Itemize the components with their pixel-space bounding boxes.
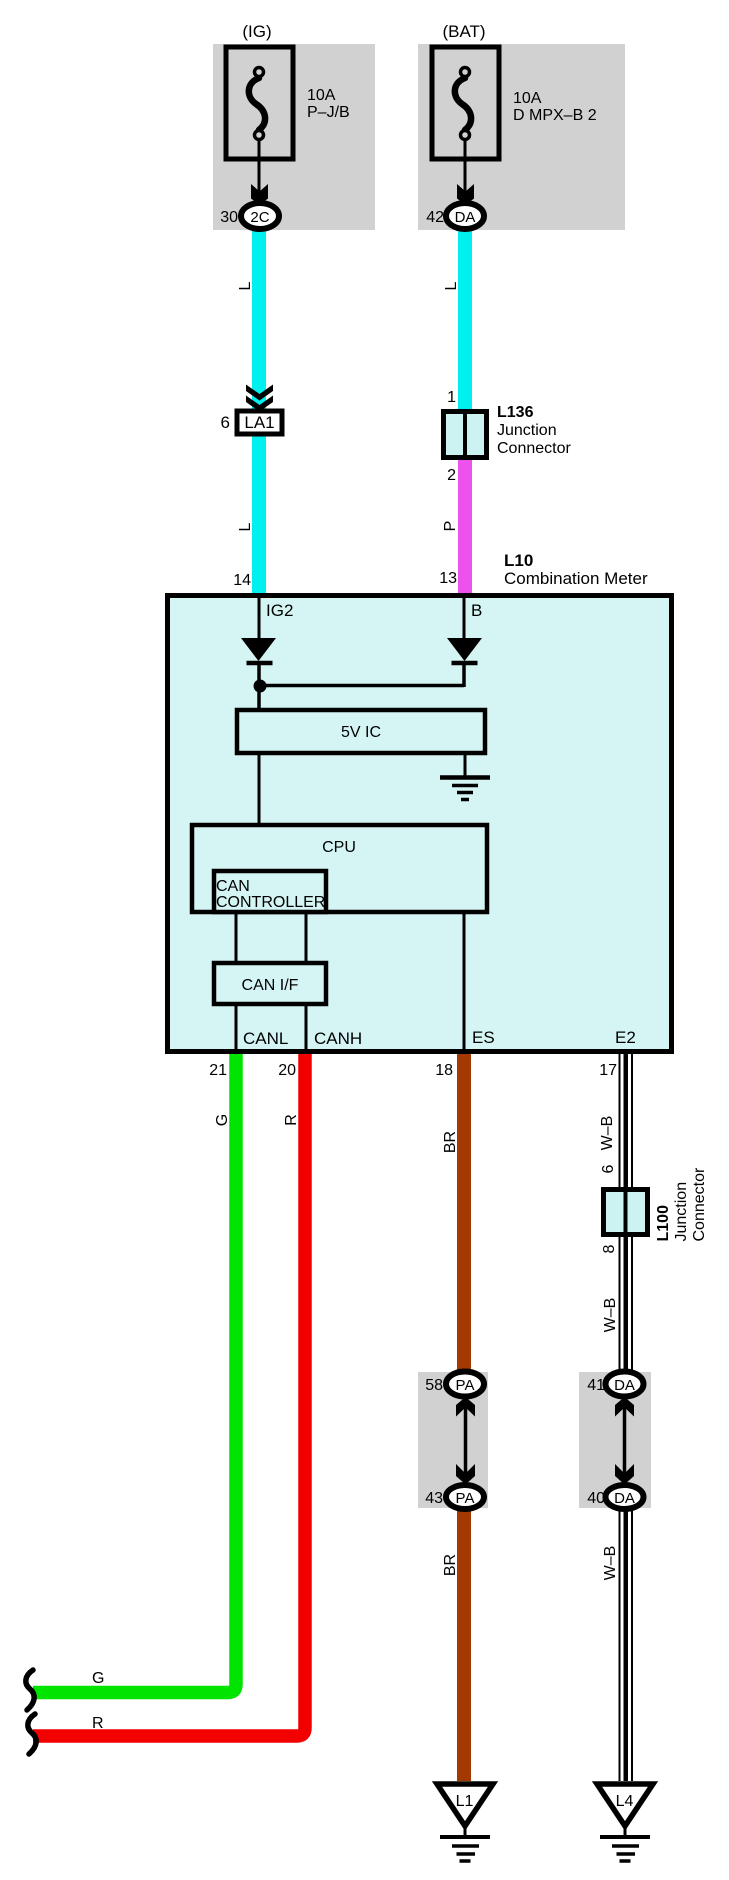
- svg-text:43: 43: [425, 1490, 443, 1507]
- connector pair arrows PA: [456, 1397, 475, 1485]
- svg-text:L: L: [237, 281, 254, 290]
- svg-text:58: 58: [425, 1377, 443, 1394]
- diode D2: [447, 638, 482, 663]
- svg-text:Junction: Junction: [673, 1182, 690, 1242]
- svg-text:R: R: [283, 1114, 300, 1126]
- combination meter box L10: [168, 596, 672, 1052]
- CAN I/F box: [214, 963, 326, 1004]
- svg-text:21: 21: [209, 1062, 227, 1079]
- CAN CONTROLLER box: [214, 871, 326, 912]
- wire CANL inside: [235, 1004, 238, 1051]
- diode D1: [241, 638, 276, 663]
- wire P (magenta) from L136 to pin 13: [458, 420, 472, 593]
- fuse block background (IG): [213, 44, 375, 230]
- svg-text:CONTROLLER: CONTROLLER: [216, 894, 325, 911]
- svg-text:2: 2: [447, 467, 456, 484]
- svg-text:18: 18: [435, 1062, 453, 1079]
- wire L (cyan) from 2C to pin 14: [252, 228, 266, 593]
- svg-text:L100: L100: [655, 1205, 672, 1242]
- svg-text:10A: 10A: [307, 87, 336, 104]
- ground L1: [437, 1784, 493, 1861]
- 5V IC box: [237, 710, 485, 753]
- svg-text:L: L: [443, 281, 460, 290]
- svg-text:IG2: IG2: [266, 601, 293, 620]
- connector block background DA: [579, 1372, 651, 1508]
- svg-text:40: 40: [587, 1490, 605, 1507]
- break symbol R: [28, 1714, 36, 1754]
- svg-text:13: 13: [439, 570, 457, 587]
- wire W-B middle segment: [619, 1237, 634, 1373]
- svg-text:(IG): (IG): [242, 22, 271, 41]
- svg-text:CAN: CAN: [216, 878, 250, 895]
- svg-text:5V IC: 5V IC: [341, 724, 381, 741]
- svg-text:BR: BR: [442, 1554, 459, 1576]
- svg-text:L136: L136: [497, 404, 534, 421]
- svg-text:30: 30: [220, 209, 238, 226]
- svg-text:L1: L1: [456, 1793, 474, 1810]
- connector PA pin 58: [425, 1372, 484, 1397]
- wire BR (brown) upper: [457, 1054, 471, 1373]
- svg-text:ES: ES: [472, 1028, 495, 1047]
- connector PA pin 43: [425, 1485, 484, 1509]
- arrow into connector DA: [457, 184, 474, 205]
- svg-text:Connector: Connector: [691, 1167, 708, 1241]
- wire fuse BAT to connector DA: [464, 139, 467, 196]
- label L136 Junction Connector: [497, 404, 571, 457]
- svg-text:L4: L4: [616, 1793, 634, 1810]
- arrow into connector 2C: [251, 184, 268, 205]
- wire G (green) vertical: [33, 1054, 236, 1693]
- svg-text:PA: PA: [456, 1490, 475, 1507]
- svg-text:10A: 10A: [513, 90, 542, 107]
- wire BR (brown) lower: [457, 1509, 471, 1781]
- label L100 Junction Connector: [655, 1167, 708, 1241]
- svg-text:W–B: W–B: [602, 1546, 619, 1581]
- svg-text:DA: DA: [455, 209, 476, 226]
- internal ground: [440, 778, 490, 800]
- connector pair arrows DA: [615, 1397, 634, 1485]
- wire W-B upper segment: [619, 1054, 634, 1187]
- junction connector L100: [604, 1189, 648, 1235]
- svg-text:W–B: W–B: [602, 1298, 619, 1333]
- ground L4: [597, 1784, 653, 1861]
- connector LA1 pin 6: [221, 411, 282, 434]
- svg-text:L: L: [237, 522, 254, 531]
- wire 5V IC to CPU: [258, 753, 261, 823]
- svg-text:Connector: Connector: [497, 440, 571, 457]
- junction node: [254, 680, 267, 693]
- label L10 Combination Meter: [504, 551, 648, 588]
- svg-text:41: 41: [587, 1377, 605, 1394]
- svg-text:17: 17: [599, 1062, 617, 1079]
- wire ES inside: [463, 912, 466, 1051]
- svg-text:(BAT): (BAT): [442, 22, 485, 41]
- wire 5V IC to internal ground: [464, 753, 467, 777]
- svg-text:B: B: [471, 601, 482, 620]
- svg-text:P: P: [442, 521, 459, 532]
- svg-text:G: G: [92, 1670, 104, 1687]
- svg-text:W–B: W–B: [599, 1116, 616, 1151]
- wire diode outputs junction: [259, 662, 464, 708]
- junction connector L136: [444, 411, 487, 458]
- connector DA pin 42: [426, 203, 484, 229]
- fuse F2 (BAT): [432, 47, 499, 159]
- svg-text:R: R: [92, 1715, 104, 1732]
- svg-text:P–J/B: P–J/B: [307, 104, 350, 121]
- connector 2C pin 30: [220, 203, 279, 229]
- svg-text:CAN I/F: CAN I/F: [242, 977, 299, 994]
- svg-text:E2: E2: [615, 1028, 636, 1047]
- wire W-B lower segment: [619, 1509, 634, 1781]
- CPU box: [192, 825, 487, 912]
- svg-text:DA: DA: [614, 1490, 635, 1507]
- svg-text:CANH: CANH: [314, 1029, 362, 1048]
- wire L (cyan) from DA to L136: [458, 228, 472, 420]
- svg-text:D MPX–B 2: D MPX–B 2: [513, 107, 597, 124]
- connector arrows chevron above LA1: [246, 385, 273, 401]
- svg-text:BR: BR: [442, 1131, 459, 1153]
- wire fuse IG to connector 2C: [258, 139, 261, 196]
- svg-text:L10: L10: [504, 551, 533, 570]
- svg-text:6: 6: [600, 1164, 617, 1173]
- svg-text:CPU: CPU: [322, 839, 356, 856]
- svg-text:G: G: [214, 1114, 231, 1126]
- wire CAN controller to CAN I/F right: [305, 914, 308, 961]
- connector DA pin 40: [587, 1485, 643, 1509]
- wire CAN controller to CAN I/F left: [235, 914, 238, 961]
- svg-text:DA: DA: [614, 1377, 635, 1394]
- svg-text:CANL: CANL: [243, 1029, 288, 1048]
- wire R (red) vertical: [33, 1054, 305, 1736]
- svg-text:6: 6: [221, 413, 230, 432]
- pin IG2 stub: [258, 595, 261, 638]
- wire CANH inside: [305, 1004, 308, 1051]
- connector block background PA: [418, 1372, 488, 1508]
- fuse F1 (IG): [226, 47, 293, 159]
- svg-text:PA: PA: [456, 1377, 475, 1394]
- svg-text:LA1: LA1: [244, 413, 274, 432]
- fuse block background (BAT): [418, 44, 625, 230]
- pin B stub: [463, 595, 466, 638]
- svg-text:8: 8: [601, 1244, 618, 1253]
- svg-text:14: 14: [233, 572, 251, 589]
- svg-text:20: 20: [278, 1062, 296, 1079]
- svg-text:Combination Meter: Combination Meter: [504, 569, 648, 588]
- svg-text:2C: 2C: [250, 209, 269, 226]
- break symbol G: [26, 1670, 34, 1710]
- svg-text:42: 42: [426, 209, 444, 226]
- connector DA pin 41: [587, 1372, 643, 1397]
- svg-text:Junction: Junction: [497, 422, 557, 439]
- svg-text:1: 1: [447, 389, 456, 406]
